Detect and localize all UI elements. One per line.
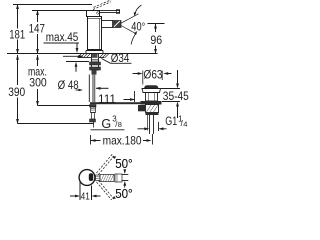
- label G 1 1/4: [165, 114, 187, 128]
- svg-text:G1: G1: [165, 114, 177, 128]
- svg-text:G: G: [101, 117, 111, 131]
- label G 3/8: [91, 115, 125, 132]
- extension line 147 top: [32, 10, 88, 12]
- shank through-deck dark fill: [92, 54, 98, 58]
- dim max.45: [44, 30, 80, 53]
- lever handle solid: [100, 10, 120, 14]
- faucet body: [88, 17, 102, 50]
- svg-text:Ø63: Ø63: [144, 67, 163, 81]
- waste seal nut: [141, 101, 162, 105]
- waste tee box: [146, 105, 159, 116]
- pop-up rod vertical: [94, 75, 96, 103]
- top view lever neck: [96, 175, 101, 181]
- dim max.180: [91, 134, 153, 148]
- deck line: [7, 53, 158, 55]
- svg-text:35-45: 35-45: [163, 89, 189, 103]
- waste rod knob: [138, 105, 146, 111]
- dim 111: [96, 87, 136, 106]
- deck bottom line: [78, 57, 105, 59]
- 40 degree swivel lines: [121, 14, 139, 34]
- dim 35-45: [161, 70, 189, 118]
- label diameter 34: [102, 51, 132, 65]
- svg-text:max.45: max.45: [46, 30, 79, 44]
- waste lift rod: [147, 115, 149, 131]
- extension line 181 top: [13, 4, 92, 6]
- svg-text:300: 300: [29, 76, 47, 90]
- dim max.300: [28, 55, 47, 106]
- svg-text:50°: 50°: [115, 186, 133, 200]
- svg-text:111: 111: [98, 92, 116, 106]
- top view lever dashed up: [97, 153, 115, 174]
- svg-text:181: 181: [9, 27, 25, 41]
- aerator: [113, 21, 122, 28]
- svg-text:41: 41: [81, 191, 90, 200]
- faucet base flange: [86, 51, 103, 54]
- pop-up rod horizontal: [90, 102, 144, 104]
- top view lever grip: [100, 175, 114, 182]
- top view lever tip: [115, 174, 122, 182]
- spout: [102, 21, 114, 28]
- waste body: [146, 93, 158, 102]
- extension line 390: [18, 123, 95, 125]
- faucet cap: [87, 11, 100, 17]
- arc arrow upper: [134, 5, 142, 16]
- hose fitting: [90, 105, 97, 128]
- waste plug dome: [144, 85, 159, 88]
- top view circle: [79, 170, 95, 186]
- extension line max300: [38, 105, 91, 107]
- svg-text:4: 4: [183, 119, 187, 128]
- svg-text:max.180: max.180: [103, 134, 142, 148]
- leader arrow into deck: [63, 55, 84, 58]
- extension line waste right: [158, 122, 160, 131]
- svg-text:96: 96: [150, 33, 162, 47]
- arc arrow top view lower: [112, 181, 128, 199]
- extension line spout outlet: [148, 23, 165, 25]
- threaded shank: [90, 54, 101, 71]
- dim 147: [29, 10, 45, 54]
- svg-text:8: 8: [118, 120, 122, 129]
- dim 96: [150, 24, 162, 55]
- supply hose tube: [89, 75, 93, 103]
- svg-text:390: 390: [8, 85, 25, 99]
- label diameter 48: [58, 62, 89, 92]
- deck hatching: [78, 54, 110, 58]
- top view lever dashed down: [97, 180, 115, 201]
- leader arrow to waste pipe: [138, 127, 150, 130]
- lever handle raised dashed: [93, 0, 111, 10]
- leader arrow to hose: [76, 89, 84, 92]
- waste flange: [142, 89, 161, 93]
- dim 181: [9, 4, 25, 54]
- dim 41: [70, 181, 101, 203]
- top view lever slot: [89, 173, 93, 181]
- lever pivot ticks: [96, 11, 100, 15]
- svg-text:40°: 40°: [131, 19, 145, 33]
- shank hose connector: [92, 70, 97, 75]
- svg-text:50°: 50°: [115, 156, 133, 171]
- arc arrow lower: [131, 31, 137, 45]
- dim diameter 63: [133, 67, 172, 84]
- svg-text:147: 147: [29, 21, 45, 35]
- dim 390: [8, 55, 25, 124]
- arc arrow top view upper: [112, 156, 128, 174]
- dim G 1 1/4 arrow: [159, 127, 167, 130]
- waste tail pipe: [150, 115, 154, 134]
